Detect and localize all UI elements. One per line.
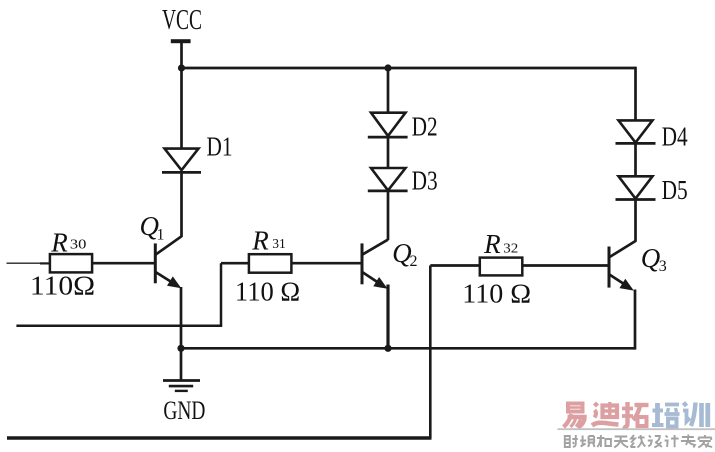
- tian: [614, 437, 628, 448]
- wire D2 to D3: [387, 136, 390, 168]
- value label 110 ohm (R31): [235, 278, 300, 308]
- node junction dot Q1 emitter / ground rail: [177, 345, 184, 352]
- value label 110 ohm (R30): [30, 272, 95, 302]
- svg-text:110 Ω: 110 Ω: [235, 278, 300, 308]
- label Q1: [140, 211, 165, 243]
- svg-text:2: 2: [410, 253, 418, 270]
- ground symbol: [163, 381, 200, 391]
- wire third input line (bottom): [7, 436, 432, 439]
- wire R31 to Q2 base: [291, 262, 361, 265]
- value label 110 ohm (R32): [462, 279, 531, 309]
- wire top rail: [180, 67, 636, 70]
- node junction dot Q2 emitter / rail: [384, 345, 391, 352]
- svg-text:30: 30: [70, 237, 87, 252]
- watermark subtitle: [565, 435, 712, 448]
- jia: [698, 435, 712, 448]
- resistor R31: [249, 254, 292, 273]
- label R31: [251, 226, 285, 256]
- wire D1 cathode to Q1 collector: [180, 171, 183, 237]
- wire R30 to Q1 base: [92, 262, 155, 265]
- wire second input line: [16, 325, 222, 328]
- svg-text:GND: GND: [163, 395, 205, 425]
- svg-text:D3: D3: [412, 165, 438, 195]
- svg-text:110 Ω: 110 Ω: [462, 279, 531, 309]
- svg-text:VCC: VCC: [162, 5, 202, 36]
- she2: [648, 436, 662, 448]
- diode D1: [162, 149, 201, 173]
- svg-text:R: R: [483, 229, 501, 259]
- resistor R32: [480, 258, 523, 276]
- char di: [592, 402, 619, 426]
- watermark: [558, 402, 715, 448]
- transistor Q2: [362, 240, 388, 289]
- svg-text:1: 1: [157, 226, 165, 243]
- transistor Q1: [155, 236, 181, 288]
- watermark underline: [558, 428, 715, 430]
- wire D3 cathode to Q2 collector: [387, 191, 390, 240]
- transistor Q3: [609, 241, 636, 291]
- diode D2: [368, 113, 408, 137]
- node junction dot at VCC rail: [178, 64, 185, 71]
- node junction dot rail/D2 branch: [384, 64, 391, 71]
- label Q2: [392, 238, 417, 270]
- pin: [580, 436, 595, 448]
- svg-text:Q: Q: [641, 243, 661, 273]
- svg-text:110Ω: 110Ω: [30, 272, 95, 302]
- svg-text:31: 31: [272, 237, 286, 252]
- diode D3: [368, 168, 408, 191]
- he: [597, 435, 611, 447]
- xian: [631, 435, 646, 448]
- svg-text:D2: D2: [412, 111, 438, 141]
- ji: [665, 435, 679, 447]
- wire Q2 emitter down: [386, 285, 389, 349]
- wire R32 to Q3 base: [522, 264, 608, 267]
- power symbol VCC terminal bar: [171, 39, 191, 43]
- svg-text:R: R: [251, 226, 269, 256]
- wire input to R32: [430, 264, 480, 267]
- wire Q1 emitter down: [180, 287, 183, 348]
- diode D4: [616, 120, 656, 143]
- char pei: [652, 403, 680, 427]
- label Q3: [641, 243, 667, 275]
- wire rail to D2 anode: [387, 68, 390, 113]
- wire rail corner down to D4: [634, 67, 637, 120]
- svg-text:R: R: [50, 227, 68, 257]
- she: [565, 435, 578, 447]
- wire VCC stem: [180, 43, 183, 69]
- wire Q3 emitter down to rail: [634, 290, 637, 350]
- label R32: [483, 229, 518, 259]
- char xun: [683, 403, 708, 428]
- wire rail to D1 anode: [180, 68, 183, 149]
- wire input to R31: [221, 262, 249, 265]
- zhuan: [681, 435, 696, 448]
- svg-text:32: 32: [503, 241, 518, 256]
- wire D4 to D5: [634, 143, 637, 176]
- svg-text:3: 3: [659, 258, 667, 275]
- svg-text:D4: D4: [662, 121, 688, 151]
- wire node B down from R32 input (crosses rail, no connection): [429, 266, 432, 439]
- wire input to R30: [7, 262, 42, 264]
- char tuo: [622, 402, 649, 427]
- diode D5: [616, 176, 656, 199]
- label R30: [50, 227, 86, 257]
- wire bottom emitter rail: [181, 347, 635, 350]
- wire corner to D4 anode: [634, 119, 637, 120]
- wire ground stem: [180, 348, 183, 380]
- wire D5 cathode to Q3 collector: [634, 200, 637, 242]
- char yi: [564, 404, 585, 428]
- svg-text:D5: D5: [662, 175, 688, 205]
- resistor R30: [50, 254, 92, 272]
- wire node A down from R31 input: [220, 263, 223, 326]
- svg-text:D1: D1: [207, 132, 233, 162]
